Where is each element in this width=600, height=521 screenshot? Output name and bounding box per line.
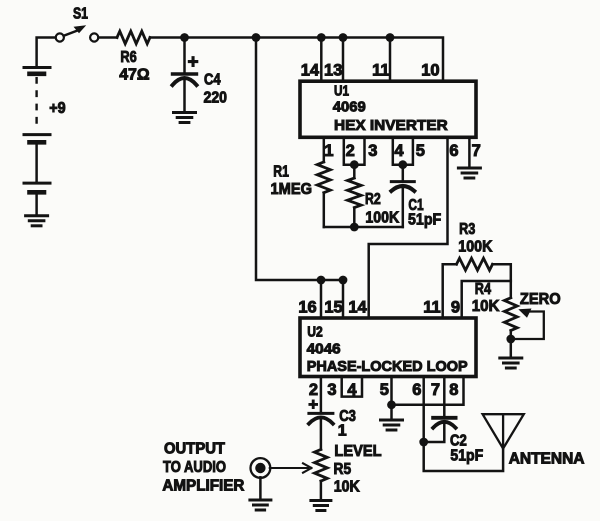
wire cell3 to ground <box>35 194 38 215</box>
svg-text:1: 1 <box>324 142 333 160</box>
label R3 <box>459 221 475 238</box>
wire battery top to switch <box>37 38 56 67</box>
label C1 <box>408 197 423 214</box>
svg-text:R5: R5 <box>334 461 352 478</box>
wire U2 pin 9 to R4 node <box>462 281 511 318</box>
svg-text:51pF: 51pF <box>450 448 483 465</box>
svg-text:47Ω: 47Ω <box>119 67 150 84</box>
wire node to R2 <box>353 165 356 178</box>
svg-text:7: 7 <box>431 381 440 399</box>
svg-text:10K: 10K <box>472 298 500 315</box>
svg-text:R4: R4 <box>475 281 491 298</box>
battery B1 cell 3 <box>24 183 50 192</box>
wire C3 to R5 <box>320 417 323 449</box>
svg-text:7: 7 <box>472 142 481 160</box>
pin label 5 U2 <box>380 381 389 399</box>
svg-text:6: 6 <box>412 381 421 399</box>
wire U2 pin 15 stub <box>342 280 345 318</box>
svg-text:AMPLIFIER: AMPLIFIER <box>162 478 244 495</box>
label R2 <box>365 191 381 208</box>
svg-text:4069: 4069 <box>333 99 366 116</box>
svg-text:220: 220 <box>204 89 228 106</box>
wire pin6 node to antenna <box>424 442 503 471</box>
capacitor C2 <box>433 418 456 428</box>
wire bottom rail R1-C1 <box>324 226 403 229</box>
svg-text:3: 3 <box>368 142 377 160</box>
capacitor C3 <box>309 413 333 423</box>
antenna <box>483 414 524 448</box>
op-amp U1 box <box>300 81 476 137</box>
label R4 <box>475 281 491 298</box>
wire R2 to bottom rail <box>353 208 356 227</box>
svg-text:S1: S1 <box>73 6 88 23</box>
svg-text:5: 5 <box>416 142 425 160</box>
wire jack to ground <box>259 477 262 498</box>
wire pin5 node to ground <box>390 405 393 419</box>
label 100K R3 <box>458 238 492 255</box>
op-amp U2 box <box>300 318 476 377</box>
label S1 <box>73 6 88 23</box>
pin label 3 U2 <box>327 381 336 399</box>
label PHASE-LOCKED LOOP <box>307 358 468 375</box>
label C2 <box>450 432 467 449</box>
wire U2 pin 6 stub <box>422 377 425 443</box>
resistor R2 <box>347 178 361 208</box>
node pin16 tap <box>317 276 326 285</box>
svg-text:11: 11 <box>372 62 389 80</box>
wire U2 pin 5 stub <box>390 377 393 405</box>
label 47ohm <box>119 67 150 84</box>
pin label 6 <box>449 142 458 160</box>
svg-text:+9: +9 <box>49 100 65 117</box>
wire between cells <box>35 145 38 182</box>
label 51pF C2 <box>450 448 483 465</box>
node pin13 tap <box>339 33 348 42</box>
wire node to C1 <box>402 165 405 182</box>
pin label 16 <box>298 299 316 317</box>
svg-text:13: 13 <box>324 62 342 80</box>
label R1 <box>273 164 289 181</box>
svg-text:C4: C4 <box>204 72 221 89</box>
label C3 value 1 <box>338 423 347 440</box>
label 10K R5 <box>334 478 360 495</box>
capacitor C1 <box>391 182 414 191</box>
wire U1 pin 7 stub <box>468 137 471 167</box>
resistor R4 <box>504 298 517 331</box>
svg-text:16: 16 <box>298 299 316 317</box>
connector output jack <box>251 458 271 478</box>
resistor R1 <box>317 162 330 193</box>
label AMPLIFIER <box>162 478 244 495</box>
ground U2 pin 5 <box>381 420 403 430</box>
ground output jack <box>250 500 271 510</box>
wire R6 to C4 node <box>150 36 185 39</box>
svg-text:9: 9 <box>451 299 460 317</box>
svg-text:U1: U1 <box>334 83 349 100</box>
pin label 4 U2 <box>347 381 357 399</box>
svg-text:11: 11 <box>423 299 440 317</box>
node R2 bottom <box>350 223 359 232</box>
pin label 2 <box>346 142 355 160</box>
pin label 14 <box>301 62 320 80</box>
svg-text:14: 14 <box>348 299 367 317</box>
label 100K R2 <box>365 210 399 227</box>
pin label 7 U2 <box>431 381 440 399</box>
wire supply rail <box>185 38 444 82</box>
label C3 <box>339 408 356 425</box>
wire C2 to pin6 node <box>424 422 445 442</box>
node R4 bottom <box>506 335 515 344</box>
node C4 junction <box>180 33 189 42</box>
svg-text:TO AUDIO: TO AUDIO <box>163 459 226 476</box>
pin label 2 U2 <box>309 381 318 399</box>
svg-text:+: + <box>188 52 199 73</box>
label ANTENNA <box>509 451 585 468</box>
svg-text:3: 3 <box>327 381 336 399</box>
node pins 4-5 <box>398 160 407 169</box>
label C4 <box>204 72 221 89</box>
pin label 7 <box>472 142 481 160</box>
label U2 <box>307 324 323 341</box>
pin label 14 U2 <box>348 299 367 317</box>
svg-text:R6: R6 <box>120 49 136 66</box>
ground U1 pin 7 <box>458 168 480 178</box>
svg-text:PHASE-LOCKED LOOP: PHASE-LOCKED LOOP <box>307 358 468 375</box>
node C2 pin6 junction <box>419 438 428 447</box>
node pins 2-3 <box>350 160 359 169</box>
svg-text:U2: U2 <box>307 324 323 341</box>
pin label 6 U2 <box>412 381 421 399</box>
pin label 8 U2 <box>449 381 458 399</box>
svg-text:14: 14 <box>301 62 320 80</box>
svg-text:R1: R1 <box>273 164 289 181</box>
label 1MEG <box>271 181 313 198</box>
label ZERO <box>520 291 561 308</box>
svg-text:R3: R3 <box>459 221 475 238</box>
label TO AUDIO <box>163 459 226 476</box>
wire node to C4 <box>183 38 186 73</box>
svg-text:HEX INVERTER: HEX INVERTER <box>334 117 448 134</box>
battery B1 cell 1 <box>24 68 50 74</box>
wire R5 to ground <box>320 481 323 499</box>
wire U2 pin 16 stub <box>320 280 323 318</box>
label 4046 <box>307 341 341 358</box>
wire U1 pins 4-5 bracket <box>393 137 413 164</box>
label HEX INVERTER <box>334 117 448 134</box>
svg-text:15: 15 <box>324 299 342 317</box>
label C3 plus <box>308 395 318 414</box>
ground battery <box>26 216 48 226</box>
label R6 <box>120 49 136 66</box>
svg-text:+: + <box>308 395 318 414</box>
wire C4 to ground <box>183 80 186 111</box>
pin label 13 <box>324 62 342 80</box>
node pin14 tap <box>317 33 326 42</box>
label 51pF C1 <box>408 212 441 229</box>
node supply tap <box>252 33 261 42</box>
wire R4 to ground <box>510 331 513 358</box>
svg-text:4046: 4046 <box>307 341 341 358</box>
wire C1 to bottom rail <box>402 186 405 227</box>
svg-text:OUTPUT: OUTPUT <box>164 441 226 458</box>
svg-text:1MEG: 1MEG <box>271 181 313 198</box>
label +9 <box>49 100 65 117</box>
resistor R5 <box>315 450 328 482</box>
wire switch to R6 <box>99 36 118 39</box>
wire U2 pins 3-4 bracket <box>342 377 362 397</box>
wire R3 to R4 <box>493 264 511 298</box>
wire U1 pin 14 stub <box>320 38 323 82</box>
wire R1 to bottom rail <box>323 193 326 227</box>
svg-text:1: 1 <box>338 423 347 440</box>
wire U1 pins 2-3 bracket <box>344 137 365 164</box>
wire dashed battery link <box>35 77 37 128</box>
svg-text:LEVEL: LEVEL <box>334 443 381 460</box>
resistor R6 <box>117 31 150 44</box>
svg-text:10K: 10K <box>334 478 360 495</box>
ground R5 <box>311 501 331 511</box>
label 220 <box>204 89 228 106</box>
svg-text:51pF: 51pF <box>408 212 441 229</box>
battery B1 cell 2 <box>24 135 50 143</box>
svg-text:5: 5 <box>380 381 389 399</box>
svg-text:2: 2 <box>346 142 355 160</box>
potentiometer ZERO wiper <box>516 309 544 340</box>
pin label 15 <box>324 299 342 317</box>
pin label 9 <box>451 299 460 317</box>
pin label 3 <box>368 142 377 160</box>
pin label 11 U2 <box>423 299 440 317</box>
pin label 10 <box>421 62 439 80</box>
ground C4 <box>174 113 196 123</box>
node pin15 tap <box>339 276 348 285</box>
label 10K R4 <box>472 298 500 315</box>
potentiometer R5 wiper <box>270 463 312 472</box>
pin label 1 <box>324 142 333 160</box>
switch S1 <box>56 25 99 41</box>
wire U2 pin 2 stub <box>320 377 323 412</box>
pin label 4 <box>394 142 404 160</box>
svg-text:ZERO: ZERO <box>520 291 561 308</box>
label C4 plus <box>188 52 199 73</box>
wire U2 pin 11 to R3 <box>443 264 457 318</box>
resistor R3 <box>457 258 493 270</box>
label U1 <box>334 83 349 100</box>
wire U1 pin 11 stub <box>389 38 392 82</box>
svg-text:100K: 100K <box>365 210 399 227</box>
node pin 5 ground <box>387 400 396 409</box>
wire U1 pin 13 stub <box>342 38 345 82</box>
label LEVEL <box>334 443 381 460</box>
svg-text:100K: 100K <box>458 238 492 255</box>
wire U2 pin 8 to pin 5 node <box>392 377 464 405</box>
capacitor C4 <box>173 74 197 85</box>
svg-text:6: 6 <box>449 142 458 160</box>
ground R4 <box>500 358 522 368</box>
wire U1 pin 6 down <box>369 137 448 318</box>
label OUTPUT <box>164 441 226 458</box>
svg-text:4: 4 <box>394 142 404 160</box>
node pin11 tap <box>386 33 395 42</box>
label R5 <box>334 461 352 478</box>
svg-text:R2: R2 <box>365 191 381 208</box>
svg-text:4: 4 <box>347 381 357 399</box>
pin label 11 <box>372 62 389 80</box>
svg-text:ANTENNA: ANTENNA <box>509 451 585 468</box>
wire U2 pin 7 stub <box>443 377 446 417</box>
wire supply to U2 pins 16-15 <box>256 38 343 281</box>
label 4069 <box>333 99 366 116</box>
svg-text:10: 10 <box>421 62 439 80</box>
wire U1 pin 1 stub <box>323 137 326 162</box>
pin label 5 <box>416 142 425 160</box>
svg-text:8: 8 <box>449 381 458 399</box>
